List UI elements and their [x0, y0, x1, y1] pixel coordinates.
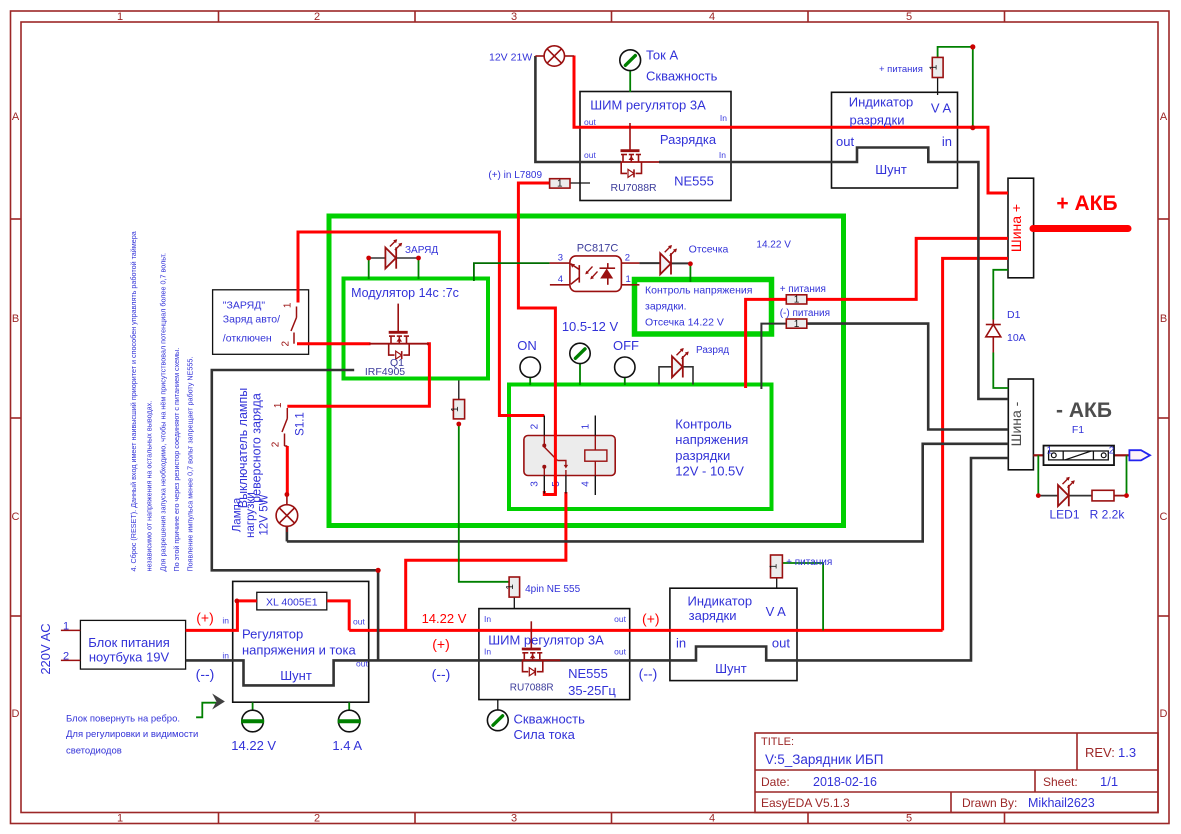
svg-text:Date:: Date:	[761, 775, 790, 789]
svg-text:Лампа: Лампа	[232, 497, 244, 532]
port 4pin NE 555	[505, 577, 519, 597]
LED1	[1058, 477, 1075, 507]
svg-text:In: In	[720, 113, 727, 123]
wire black: gate net from ЗАРЯД box down to junction	[212, 370, 378, 660]
svg-text:2: 2	[314, 11, 320, 23]
LED ЗАРЯД	[385, 239, 402, 269]
wire green: ЗАРЯД LED stubs	[368, 258, 370, 279]
svg-text:4: 4	[709, 11, 715, 23]
svg-text:3: 3	[558, 252, 563, 263]
switch pin labels rotated	[271, 302, 294, 447]
wire black: Отсечка LED right lead	[671, 262, 690, 264]
svg-text:220V AC: 220V AC	[38, 623, 53, 674]
svg-text:Индикатор: Индикатор	[688, 594, 753, 609]
diode D1	[986, 320, 1001, 353]
wire red: bottom (+) bus	[349, 629, 942, 632]
svg-text:Блок питания: Блок питания	[88, 635, 169, 650]
svg-text:Разрядка: Разрядка	[660, 132, 717, 147]
block Индикатор разрядки	[832, 92, 958, 188]
svg-text:1: 1	[794, 319, 800, 330]
wire red: Шина+ pin2 to + питания port	[807, 238, 1008, 299]
main blue labels	[88, 48, 952, 754]
svg-text:1: 1	[117, 11, 123, 23]
wire green: 14.22V and 1.4A meter stubs	[252, 702, 254, 710]
svg-text:+ АКБ: + АКБ	[1056, 192, 1117, 215]
svg-text:2: 2	[1109, 446, 1115, 457]
rotated annotation paragraph	[129, 231, 195, 571]
port (+) in L7809	[550, 179, 570, 190]
svg-text:независимо от напряжения на ос: независимо от напряжения на остальных вы…	[145, 401, 154, 572]
meter 1.4 A	[338, 710, 361, 732]
switch S1.1	[282, 408, 287, 446]
bus bar Шина -	[1008, 379, 1033, 470]
wire red: + питания port into разрядки box	[746, 299, 787, 388]
svg-text:Отсечка 14.22 V: Отсечка 14.22 V	[645, 317, 724, 329]
wire red: fuse F1 to output flag	[1114, 454, 1129, 456]
switch in ЗАРЯД box	[291, 307, 297, 344]
wire green: port 1 to 4pin NE 555 port	[459, 424, 509, 582]
output arrow flag	[1129, 450, 1150, 460]
svg-text:(-) питания: (-) питания	[780, 308, 830, 319]
svg-text:S1.1: S1.1	[295, 412, 307, 436]
svg-text:D: D	[1160, 708, 1168, 720]
svg-text:In: In	[484, 614, 491, 624]
svg-text:2: 2	[530, 423, 541, 429]
svg-text:4: 4	[709, 813, 715, 825]
svg-text:B: B	[12, 313, 19, 325]
svg-text:4: 4	[581, 481, 592, 487]
block XL 4005E1	[257, 592, 327, 610]
svg-text:10A: 10A	[1007, 332, 1026, 344]
svg-text:1: 1	[63, 620, 69, 632]
svg-text:4. Сброс (RESET). Данный вход: 4. Сброс (RESET). Данный вход имеет наив…	[129, 231, 138, 571]
svg-text:Шина +: Шина +	[1008, 204, 1024, 252]
svg-text:Индикатор: Индикатор	[849, 95, 914, 110]
svg-text:1: 1	[794, 295, 800, 306]
svg-text:1: 1	[768, 563, 779, 569]
circle OFF	[615, 357, 635, 377]
svg-text:IRF4905: IRF4905	[365, 366, 405, 378]
svg-text:Контроль напряжения: Контроль напряжения	[645, 285, 752, 297]
svg-text:1: 1	[1047, 446, 1053, 457]
svg-text:10.5-12 V: 10.5-12 V	[562, 319, 619, 334]
svg-text:(+) in L7809: (+) in L7809	[488, 170, 542, 181]
medium blue labels	[63, 64, 1125, 757]
wire green: Отсечка LED to зарядки box	[689, 264, 691, 282]
svg-text:12V - 10.5V: 12V - 10.5V	[675, 464, 744, 479]
svg-text:2: 2	[281, 340, 292, 346]
svg-text:3: 3	[511, 813, 517, 825]
small blue labels	[222, 113, 727, 669]
green box Контроль напряжения зарядки	[635, 280, 772, 335]
green box Модулятор 14с :7с	[344, 279, 489, 379]
svg-text:R 2.2k: R 2.2k	[1090, 508, 1126, 522]
svg-text:C: C	[12, 511, 20, 523]
svg-text:1.4 A: 1.4 A	[332, 738, 362, 753]
svg-text:A: A	[12, 111, 20, 123]
meter Ток А	[620, 50, 641, 71]
port + питания (bottom)	[768, 555, 782, 578]
port (-) питания	[786, 319, 807, 330]
svg-text:1: 1	[117, 813, 123, 825]
svg-text:14.22 V: 14.22 V	[756, 240, 791, 251]
svg-text:2018-02-16: 2018-02-16	[813, 775, 877, 789]
svg-text:out: out	[356, 659, 368, 669]
svg-text:XL 4005E1: XL 4005E1	[266, 597, 318, 609]
MOSFET Q1 IRF4905	[369, 304, 429, 360]
svg-text:разрядки: разрядки	[850, 113, 905, 128]
svg-text:PC817C: PC817C	[577, 243, 619, 255]
svg-text:Шунт: Шунт	[715, 661, 747, 676]
pin number labels blue	[558, 252, 631, 285]
svg-text:4pin NE 555: 4pin NE 555	[525, 584, 580, 595]
svg-text:4: 4	[558, 274, 563, 285]
svg-text:Для разрешения запуска необход: Для разрешения запуска необходимо, чтобы…	[159, 253, 168, 571]
svg-text:Выключатель лампы: Выключатель лампы	[236, 388, 250, 509]
bus bar Шина +	[1008, 178, 1034, 278]
svg-text:V:5_Зарядник ИБП: V:5_Зарядник ИБП	[765, 752, 883, 767]
port 1 (vertical, below Модулятор)	[450, 400, 465, 419]
svg-text:(+): (+)	[432, 636, 450, 652]
svg-text:12V 21W: 12V 21W	[489, 52, 532, 64]
svg-text:напряжения и тока: напряжения и тока	[242, 643, 356, 658]
svg-text:нагрузки: нагрузки	[245, 492, 257, 538]
svg-text:(--): (--)	[639, 666, 658, 682]
svg-text:REV:: REV:	[1085, 745, 1115, 760]
PSU pin stubs	[61, 629, 81, 631]
wire green: D1 to Шина- top pin	[993, 353, 1008, 389]
big green highlight box	[329, 216, 844, 526]
svg-text:In: In	[484, 647, 491, 657]
svg-text:2: 2	[63, 650, 69, 662]
svg-text:out: out	[614, 614, 626, 624]
wire black: long (-) line to Шина- pin2	[287, 444, 1008, 542]
svg-text:ноутбука 19V: ноутбука 19V	[89, 650, 170, 665]
svg-text:разрядки: разрядки	[675, 448, 730, 463]
svg-text:out: out	[584, 117, 596, 127]
wire red: Q1 drain to S1.1 pin1	[287, 344, 429, 407]
svg-text:"ЗАРЯД": "ЗАРЯД"	[223, 299, 266, 311]
svg-text:Скважность: Скважность	[514, 712, 586, 727]
svg-text:EasyEDA V5.1.3: EasyEDA V5.1.3	[761, 796, 850, 810]
svg-text:Шунт: Шунт	[875, 162, 907, 177]
svg-text:in: in	[222, 615, 229, 625]
svg-text:out: out	[772, 636, 790, 651]
svg-text:RU7088R: RU7088R	[510, 683, 554, 694]
svg-text:12V 5W: 12V 5W	[259, 494, 271, 535]
resistor R 2.2k	[1092, 490, 1114, 501]
svg-text:35-25Гц: 35-25Гц	[568, 683, 616, 698]
wire green: note arrow step	[196, 703, 216, 718]
svg-text:Блок повернуть на ребро.: Блок повернуть на ребро.	[66, 713, 180, 724]
svg-text:1: 1	[283, 302, 294, 308]
block Блок питания ноутбука	[80, 620, 185, 669]
MOSFET RU7088R (bottom)	[522, 621, 561, 675]
svg-text:5: 5	[906, 11, 912, 23]
svg-text:ON: ON	[517, 338, 537, 353]
svg-text:(+): (+)	[196, 609, 214, 625]
svg-text:V A: V A	[766, 604, 787, 619]
wire green: PC817C pin3 to Модулятор box	[474, 263, 550, 281]
svg-text:NE555: NE555	[674, 174, 714, 189]
svg-text:in: in	[676, 636, 686, 651]
svg-text:OFF: OFF	[613, 338, 639, 353]
svg-text:D1: D1	[1007, 309, 1021, 321]
svg-text:светодиодов: светодиодов	[66, 746, 122, 757]
svg-text:1.3: 1.3	[1118, 745, 1136, 760]
svg-text:LED1: LED1	[1049, 508, 1079, 522]
svg-text:Sheet:: Sheet:	[1043, 775, 1078, 789]
svg-text:Ток А: Ток А	[646, 48, 678, 63]
svg-text:реверсного заряда: реверсного заряда	[250, 393, 264, 503]
wire red: relay pin5 down to (+) bus	[406, 492, 566, 630]
svg-text:+ питания: + питания	[786, 557, 832, 568]
svg-text:1: 1	[505, 584, 516, 590]
svg-text:Mikhail2623: Mikhail2623	[1028, 796, 1095, 810]
port + питания (middle)	[786, 295, 807, 306]
relay	[524, 416, 615, 496]
svg-text:in: in	[222, 650, 229, 660]
svg-text:Скважность: Скважность	[646, 69, 718, 84]
svg-text:out: out	[353, 617, 365, 627]
wire black: PSU (-) rail through shunts to Шина-	[186, 458, 1009, 685]
svg-text:Регулятор: Регулятор	[242, 627, 303, 642]
svg-text:C: C	[1160, 511, 1168, 523]
blue (--) labels	[196, 666, 658, 683]
svg-text:in: in	[942, 134, 952, 149]
svg-text:1: 1	[557, 179, 563, 190]
wire black: Отсечка LED left lead	[639, 262, 660, 264]
meter 14.22 V	[241, 710, 264, 732]
svg-text:(--): (--)	[432, 666, 451, 682]
svg-text:2: 2	[314, 813, 320, 825]
LED Отсечка	[660, 245, 677, 275]
wire red: S1.1 pin2 to load lamp	[286, 446, 289, 495]
svg-text:- АКБ: - АКБ	[1056, 399, 1112, 422]
wire red: ЗАРЯД switch pin1 loop to relay pin2	[298, 232, 544, 416]
svg-text:out: out	[584, 150, 596, 160]
wire red: L7809 port to relay pin3	[518, 183, 555, 495]
svg-text:Разряд: Разряд	[696, 345, 729, 356]
block ЗАРЯД switch box	[213, 290, 309, 355]
lamp 12V 21W	[535, 46, 574, 66]
svg-text:TITLE:: TITLE:	[761, 736, 794, 748]
wire green: Шина+ bottom to D1	[993, 270, 1008, 320]
rotated blue labels (left)	[232, 388, 271, 538]
svg-text:/отключен: /отключен	[223, 332, 272, 344]
svg-text:1: 1	[929, 64, 940, 70]
svg-text:F1: F1	[1072, 424, 1084, 436]
svg-text:Шунт: Шунт	[280, 668, 312, 683]
block ШИМ регулятор 3А (bottom)	[479, 609, 630, 700]
svg-text:Появление импульса менее 0,7 в: Появление импульса менее 0,7 вольт запре…	[186, 357, 195, 572]
component name labels (navy)	[365, 182, 657, 694]
svg-text:3: 3	[530, 481, 541, 487]
svg-text:Контроль: Контроль	[675, 417, 732, 432]
block Индикатор зарядки	[670, 588, 797, 680]
meter 10.5-12V	[570, 343, 590, 363]
wire green: fuse/LED branch verticals	[1037, 455, 1039, 495]
wire black: LED1 and R2.2k leads	[1038, 495, 1057, 497]
block Регулятор напряжения и тока	[233, 581, 369, 702]
wire black: ЗАРЯД LED leads	[369, 257, 385, 259]
svg-text:In: In	[719, 150, 726, 160]
svg-text:1: 1	[273, 402, 284, 408]
svg-text:1: 1	[626, 274, 631, 285]
svg-text:14.22 V: 14.22 V	[231, 738, 276, 753]
svg-text:ЗАРЯД: ЗАРЯД	[405, 245, 438, 256]
fuse F1	[1044, 446, 1115, 466]
green box Контроль напряжения разрядки	[509, 385, 772, 510]
svg-text:14.22 V: 14.22 V	[422, 611, 467, 626]
svg-text:По этой причине его через рези: По этой причине его через резистор соеди…	[172, 348, 181, 572]
block ШИМ регулятор 3А (top)	[580, 92, 731, 201]
meter Скважность/Сила тока	[487, 710, 508, 731]
svg-text:Шина -: Шина -	[1008, 401, 1024, 446]
svg-text:NE555: NE555	[568, 666, 608, 681]
svg-text:1: 1	[581, 423, 592, 429]
wire red: Шина+ pin3 down to bottom red bus	[943, 258, 1008, 630]
wire black: (-) питания port branches	[761, 324, 786, 389]
note arrow (bottom left)	[212, 694, 225, 710]
svg-text:V A: V A	[931, 101, 952, 116]
red labels	[196, 192, 1117, 652]
load lamp 12V 5W	[276, 495, 298, 532]
svg-text:+ питания: + питания	[780, 284, 826, 295]
svg-text:out: out	[614, 647, 626, 657]
svg-text:3: 3	[511, 11, 517, 23]
wire red: L7809 net crossing relay body	[554, 430, 557, 495]
thick + АКБ bar	[1033, 225, 1128, 232]
svg-text:D: D	[12, 708, 20, 720]
wire black: Разряд LED leads	[659, 367, 672, 385]
svg-text:Сила тока: Сила тока	[514, 727, 576, 742]
svg-text:Отсечка: Отсечка	[689, 243, 729, 255]
title block	[755, 733, 1158, 813]
svg-text:ШИМ регулятор 3А: ШИМ регулятор 3А	[488, 633, 604, 648]
svg-text:(+): (+)	[642, 610, 660, 626]
MOSFET RU7088R (top)	[621, 123, 660, 177]
svg-text:+ питания: + питания	[879, 64, 923, 75]
svg-text:out: out	[836, 134, 854, 149]
svg-text:Модулятор 14с :7с: Модулятор 14с :7с	[351, 286, 459, 300]
wire red: Шина- to fuse F1	[1033, 454, 1043, 456]
svg-text:RU7088R: RU7088R	[611, 182, 658, 194]
wire green: Ток А meter stub	[629, 71, 631, 92]
wire green: ON / meter / OFF stubs	[529, 377, 531, 385]
svg-text:Заряд авто/: Заряд авто/	[223, 313, 280, 325]
svg-text:5: 5	[906, 813, 912, 825]
circle ON	[520, 357, 540, 377]
svg-text:A: A	[1160, 111, 1168, 123]
svg-text:зарядки.: зарядки.	[645, 301, 687, 313]
svg-text:(--): (--)	[196, 666, 215, 682]
svg-text:1/1: 1/1	[1100, 774, 1118, 789]
LED Разряд	[672, 348, 689, 378]
wire red: PSU (+) through XL 4005E1	[186, 601, 257, 631]
wire black stubs: ports	[570, 182, 590, 184]
wire green: top right + питания port loop to red bus	[938, 47, 973, 128]
wire red: ЗАРЯД switch pin2 to Q1	[297, 342, 371, 345]
port + питания (top right, vertical)	[929, 57, 944, 77]
wire green: Индикатор зарядки + питания port to (+) bus	[782, 563, 823, 630]
svg-text:напряжения: напряжения	[675, 432, 748, 447]
svg-text:1: 1	[450, 406, 461, 412]
svg-text:ШИМ регулятор 3А: ШИМ регулятор 3А	[590, 98, 706, 113]
svg-text:B: B	[1160, 313, 1167, 325]
wire black: 12V21W lamp through ШИМ MOSFET to shunt to Шина- pin1	[535, 56, 621, 162]
svg-text:зарядки: зарядки	[689, 608, 737, 623]
svg-text:Drawn By:: Drawn By:	[962, 796, 1017, 810]
wire red: lamp to top red bus to Шина+ pin1	[574, 56, 1008, 194]
svg-text:Для регулировки и видимости: Для регулировки и видимости	[66, 729, 198, 740]
optocoupler PC817C	[550, 256, 640, 292]
svg-text:2: 2	[625, 252, 630, 263]
svg-text:2: 2	[271, 441, 282, 447]
wire black: load lamp bottom to long (-) line	[286, 527, 289, 541]
